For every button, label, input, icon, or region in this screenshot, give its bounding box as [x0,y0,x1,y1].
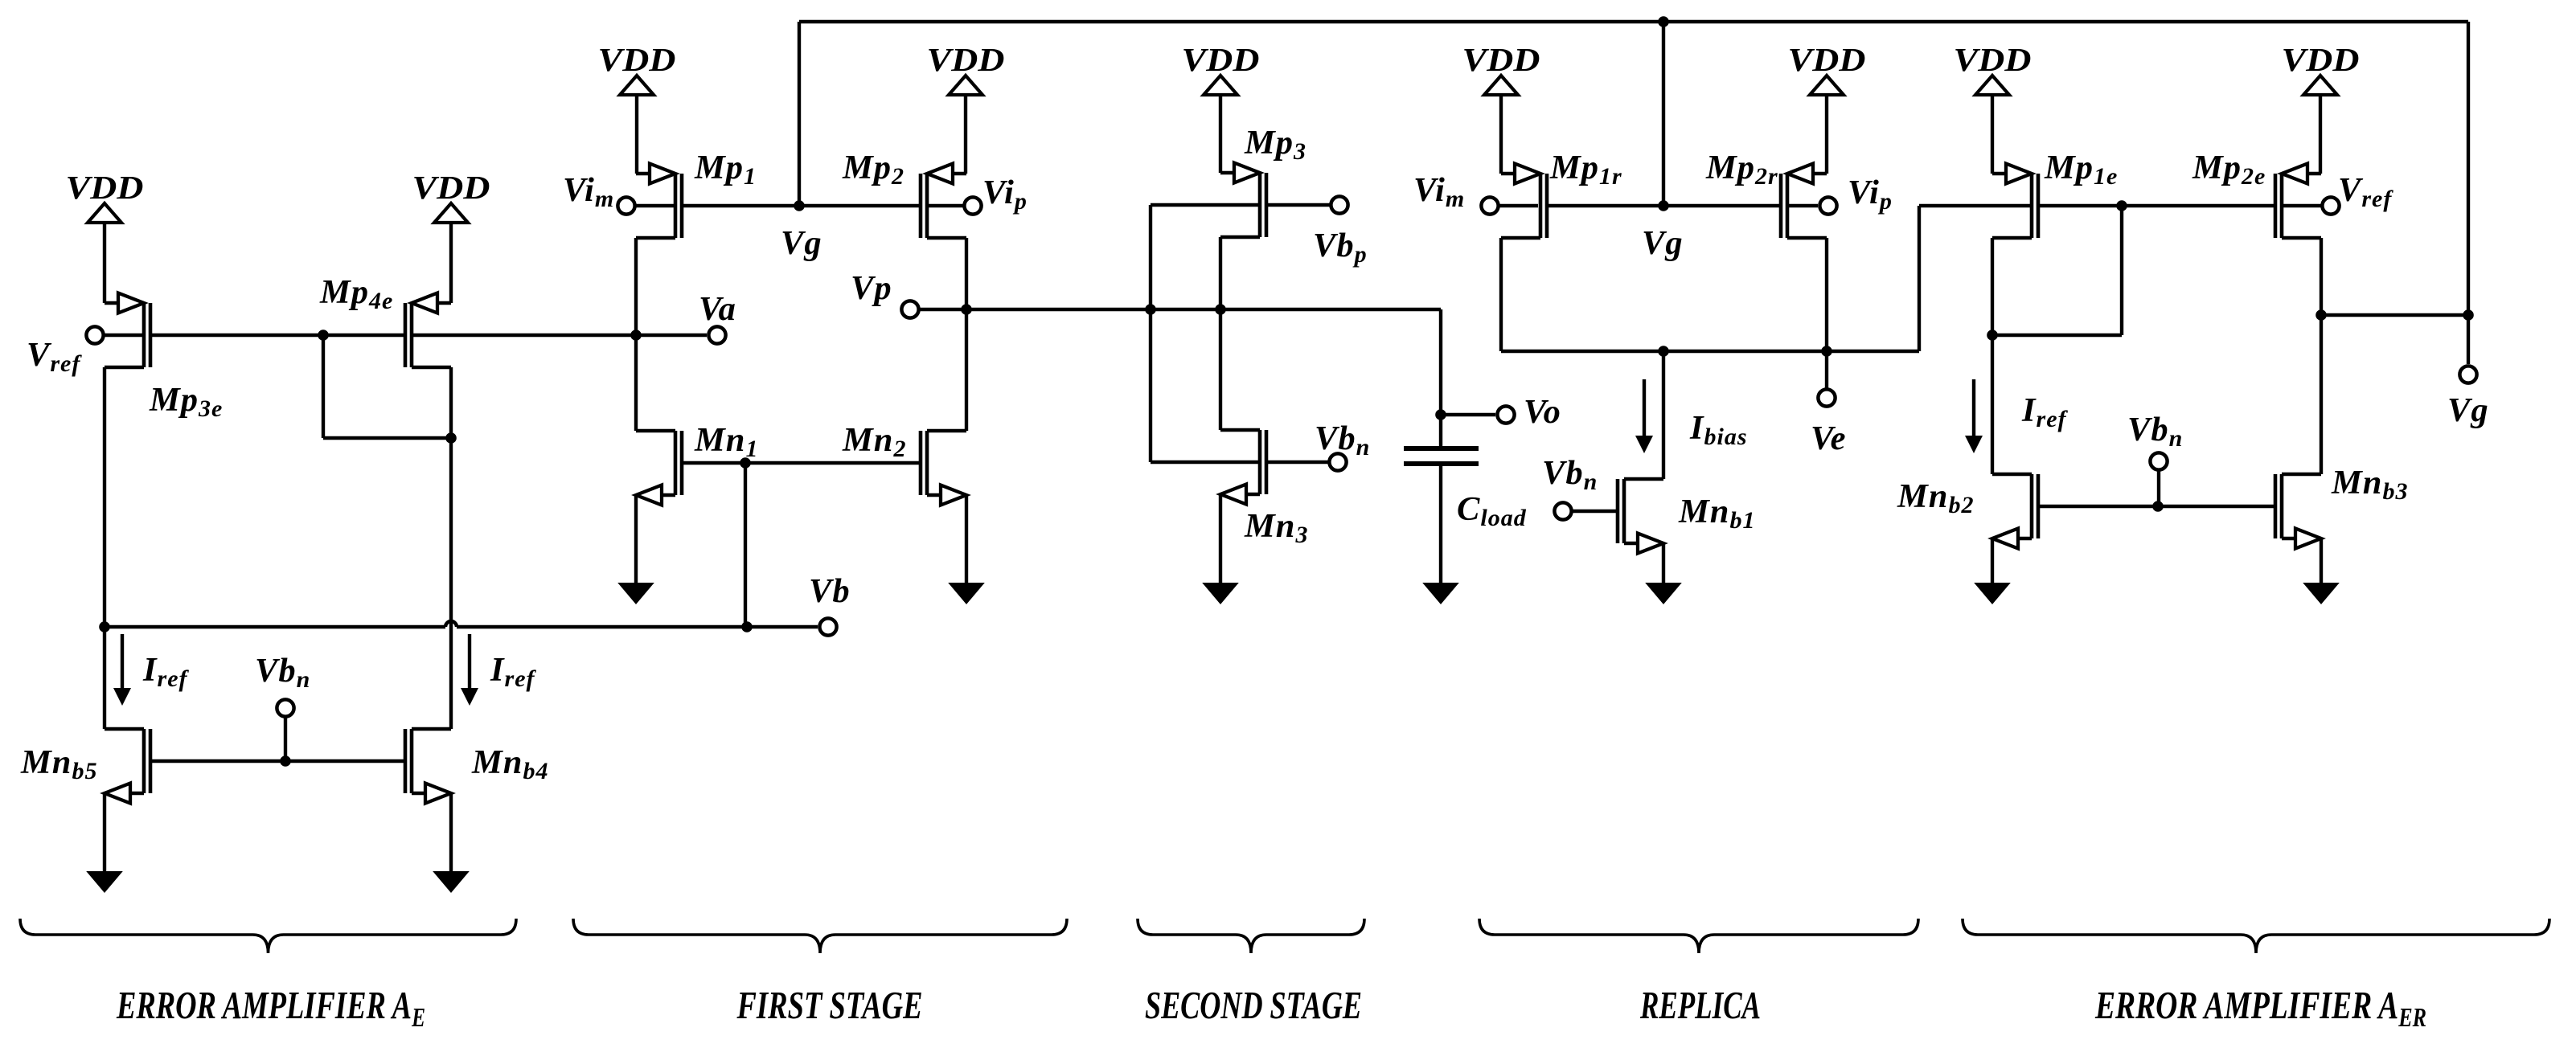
junction Vbn gate node (A_ER) [2152,501,2164,512]
wire Mp2r channel to Vip [1789,204,1818,207]
junction Vg out node a [2316,309,2327,321]
wire diode link horizontal [323,436,451,440]
ground Mn1 ground [617,583,654,604]
nmos transistor Mnb2 [1992,474,2038,549]
capacitor Cload top plate [1404,446,1479,451]
wire Vo riser [1439,309,1442,446]
wire Mn1 gate rail [683,461,745,465]
ground Mnb5 ground [86,871,123,893]
junction node B (Va) [630,330,642,341]
wire Mp3e drain down [103,367,106,729]
wire Vg to Mp2r gate [1663,204,1779,207]
wire Mp3e gate to node A [152,334,323,337]
wire Mp1 drain riser [634,238,638,335]
svg-text:Vp: Vp [851,269,892,307]
wire Ve stem [1825,351,1828,388]
wire top rail riser right [2467,22,2470,315]
wire Ve lead to Mp1e [1919,204,2030,207]
wire Mnb1 source down [1662,543,1665,583]
wire Vo lead [1441,413,1495,416]
wire gate rail to Mn2 [745,461,919,465]
wire Mn2 source down [965,495,968,583]
VDD supply VDD (Mp2) [927,41,1005,174]
junction Vp rail junction b [1215,304,1226,315]
wire Vb riser [744,463,747,627]
wire Vg out stem [2467,315,2470,364]
wire Mn1 source down [634,495,638,583]
svg-text:Vb: Vb [809,572,851,610]
wire Mp1 gate to Vg [683,204,799,207]
wire Mp4e drain down [449,367,453,729]
junction diode link junction [445,432,457,444]
junction Vo node [1435,409,1446,420]
terminal Vip input (first stage) [964,197,981,214]
nmos transistor Mn1 [636,431,682,506]
pmos transistor Mp3 [1220,163,1266,238]
svg-text:Vg: Vg [2447,391,2489,429]
wire node A to Mp4e gate [323,334,404,337]
pmos transistor Mp2e [2275,164,2321,239]
current arrow Iref right [461,634,478,706]
wire Mnb5 source down [103,793,106,871]
wire Mp3 drain riser [1219,237,1222,430]
svg-text:VDD: VDD [66,169,144,206]
terminal Va output [708,326,725,343]
wire gate rail to Mnb3 [2158,505,2274,508]
brace second stage [1138,919,1364,953]
svg-text:VDD: VDD [1462,41,1540,78]
svg-text:Vg: Vg [781,224,822,262]
wire Ve riser to error amp [1918,206,1921,351]
terminal Ve terminal [1818,389,1835,406]
wire diode node to Mp2e gate [2122,204,2274,207]
pmos transistor Mp2 [921,164,966,239]
ground Mnb2 ground [1974,583,2011,604]
junction Vp node [961,304,972,315]
junction diode node (A_ER) [2116,200,2127,211]
wire Mp2e channel to Vref [2283,204,2321,207]
pmos transistor Mp1r [1501,164,1547,239]
wire Cload to ground [1439,466,1442,583]
nmos transistor Mn2 [921,431,966,506]
wire Vp node to Mn2 drain [965,309,968,431]
junction Vb rail junction [741,621,753,632]
wire Mp1r gate to Vg [1548,204,1663,207]
wire Mp2e drain to Mnb3 [2320,315,2323,474]
nmos transistor Mnb1 [1618,479,1663,554]
terminal Vim input (first stage) [617,197,634,214]
junction Vbn gate node [280,755,291,767]
wire top rail riser left [798,22,801,206]
wire Vp rail junctions [1151,308,1220,311]
terminal Vref input [86,326,103,343]
wire Mnb2 source down [1991,538,1994,583]
junction Vg node (replica) [1658,200,1669,211]
wire gate rail to Mnb4 [285,759,404,763]
terminal Vbn bias (second stage) [1329,453,1346,470]
pmos transistor Mp2r [1781,164,1827,239]
svg-text:ERROR AMPLIFIER AE: ERROR AMPLIFIER AE [116,983,425,1033]
wire Vb rail hop [445,621,457,627]
svg-text:Va: Va [699,290,736,328]
pmos transistor Mp1 [636,164,682,239]
brace error amplifier A_ER [1963,919,2549,953]
wire Vp rail to second stage [966,308,1151,311]
wire node B to Mn1 drain [634,335,638,431]
terminal Vip input (replica) [1819,197,1836,214]
junction Iref node left [99,621,110,632]
wire Vp terminal lead [919,308,966,311]
ground Cload ground [1422,583,1459,604]
wire Vim to Mp1r [1499,204,1538,207]
VDD supply VDD (Mp2e) [2282,41,2360,174]
pmos transistor Mp3e [105,293,150,368]
junction Vg node (first stage) [794,200,805,211]
wire Mp1r drain riser [1499,238,1503,351]
terminal Vim input (replica) [1481,197,1498,214]
wire Mnb4 source down [449,793,453,871]
VDD supply VDD (Mp3e) [66,169,144,303]
wire Mp1e drain to Mnb2 [1991,335,1994,474]
current arrow Ibias [1635,379,1653,453]
wire Mp4e channel to node B [413,334,636,337]
wire Vb rail right [457,625,818,628]
wire Mp2 drain riser [965,238,968,309]
nmos transistor Mnb3 [2275,474,2321,549]
terminal Vbn bias [277,699,293,716]
wire replica tail rail [1501,350,1919,353]
brace first stage [573,919,1067,953]
capacitor Cload bottom plate [1404,461,1479,466]
nmos transistor Mn3 [1220,430,1266,505]
wire Mnb2 gate rail [2040,505,2158,508]
ground Mnb4 ground [433,871,470,893]
wire Mnb3 source down [2320,538,2323,583]
current arrow Iref left [113,634,131,706]
wire Vg out rail [2321,313,2468,317]
wire Mp1e drain riser [1991,238,1994,335]
svg-text:VDD: VDD [927,41,1005,78]
junction tail junction Ve [1821,346,1832,357]
pmos transistor Mp1e [1992,164,2038,239]
wire Mn3 bulk lead [1151,461,1258,464]
terminal Vref input (A_ER) [2322,197,2339,214]
svg-text:VDD: VDD [412,169,490,206]
svg-text:FIRST STAGE: FIRST STAGE [736,983,923,1027]
junction top rail junction [1658,16,1669,27]
wire Vbn stem [284,717,287,761]
wire node B to Va terminal [636,334,707,337]
junction Vb gate node [740,457,751,469]
VDD supply VDD (Mp1r) [1462,41,1540,174]
wire diode link vertical [322,335,325,438]
wire tail to Mnb1 drain [1662,351,1665,479]
junction Vg out node b [2463,309,2474,321]
svg-text:REPLICA: REPLICA [1639,983,1761,1027]
junction Vp rail junction a [1145,304,1156,315]
wire Mn3 source down [1219,494,1222,583]
terminal Vg output [2459,366,2476,383]
wire Mp2e drain riser [2320,238,2323,315]
svg-text:Vg: Vg [1642,224,1684,262]
svg-text:VDD: VDD [1954,41,2032,78]
nmos transistor Mnb4 [405,729,451,804]
wire Vref to Mp3e [103,334,142,337]
brace replica [1479,919,1918,953]
wire Vg to Mp2 gate [799,204,919,207]
wire Mn3 gate to Vbn [1268,461,1328,464]
wire top rail [799,20,2468,23]
wire Vp rail to Cload corner [1220,308,1441,311]
svg-text:VDD: VDD [1182,41,1260,78]
svg-text:ERROR AMPLIFIER AER: ERROR AMPLIFIER AER [2094,983,2426,1033]
terminal Vp terminal [901,301,918,317]
VDD supply VDD (Mp1e) [1954,41,2032,174]
current arrow Iref (A_ER) [1965,379,1983,453]
wire Mnb5 gate rail [152,759,285,763]
wire Mp3 gate to Vbp [1268,203,1330,207]
terminal Vbn bias (Mnb1) [1554,502,1571,519]
wire Mp3 bulk riser [1149,205,1152,309]
junction Mp1e drain node [1987,330,1998,341]
wire diode vertical [2120,206,2123,335]
wire Vim to Mp1 [635,204,674,207]
wire Mp3 bulk lead [1151,203,1258,207]
wire Mp2 channel to Vip [929,204,963,207]
VDD supply VDD (Mp2r) [1788,41,1866,174]
wire Vbn to Mnb1 gate [1572,510,1618,513]
ground Mnb3 ground [2303,583,2340,604]
svg-text:VDD: VDD [2282,41,2360,78]
svg-text:SECOND STAGE: SECOND STAGE [1145,983,1362,1027]
svg-text:VDD: VDD [598,41,676,78]
terminal Vbp bias [1331,196,1347,213]
junction tail junction Ibias [1658,346,1669,357]
terminal Vo terminal [1497,406,1514,423]
VDD supply VDD (Mp1) [598,41,676,174]
ground Mn3 ground [1202,583,1239,604]
nmos transistor Mnb5 [105,729,150,804]
brace error amplifier A_E [20,919,516,953]
ground Mn2 ground [948,583,985,604]
VDD supply VDD (Mp4e) [412,169,490,303]
wire diode horizontal [1992,334,2122,337]
wire Mp1e gate to diode node [2040,204,2122,207]
wire Vbn stem (A_ER) [2157,470,2160,506]
VDD supply VDD (Mp3) [1182,41,1260,173]
svg-text:Ve: Ve [1811,420,1847,457]
pmos transistor Mp4e [405,293,451,368]
wire Mp2r drain riser [1825,238,1828,351]
wire Vb rail left [105,625,445,628]
ground Mnb1 ground [1645,583,1682,604]
terminal Vb terminal [819,618,836,635]
svg-text:VDD: VDD [1788,41,1866,78]
wire replica Vg riser [1662,22,1665,206]
junction node A (Mp3e gate / Mp4e gate) [318,330,329,341]
wire Mn3 bulk riser [1149,309,1152,462]
terminal Vbn bias (A_ER) [2150,452,2167,469]
svg-text:Vo: Vo [1524,393,1561,431]
